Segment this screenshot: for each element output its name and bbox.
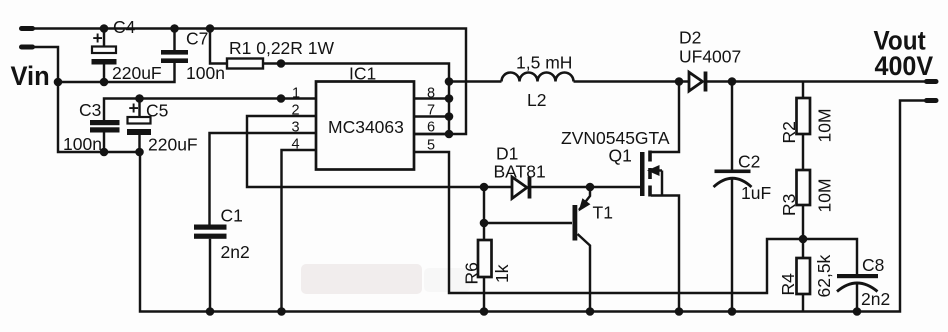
svg-text:MC34063: MC34063 [328,117,404,137]
svg-text:C7: C7 [186,29,208,49]
svg-text:C4: C4 [113,17,136,37]
svg-text:220uF: 220uF [148,135,198,155]
svg-text:UF4007: UF4007 [679,47,741,67]
svg-text:220uF: 220uF [112,63,162,83]
svg-text:8: 8 [427,86,435,102]
svg-text:2: 2 [292,103,300,119]
svg-text:100n: 100n [63,134,102,154]
svg-text:100n: 100n [186,63,225,83]
svg-text:R6: R6 [462,262,482,284]
svg-text:D2: D2 [679,28,701,48]
svg-text:Q1: Q1 [609,146,632,166]
svg-text:10M: 10M [815,178,835,212]
svg-text:C5: C5 [146,101,168,121]
svg-text:L2: L2 [527,90,546,110]
svg-text:R3: R3 [779,194,799,216]
svg-text:C8: C8 [862,255,884,275]
svg-text:C3: C3 [79,100,101,120]
svg-text:2n2: 2n2 [221,242,250,262]
svg-text:3: 3 [292,120,300,136]
svg-text:+: + [93,28,103,48]
svg-text:BAT81: BAT81 [494,162,546,182]
svg-text:D1: D1 [496,144,518,164]
svg-text:400V: 400V [875,50,934,81]
svg-text:1uF: 1uF [741,183,771,203]
svg-text:4: 4 [292,137,300,153]
svg-text:R2: R2 [779,121,799,143]
svg-text:6: 6 [427,120,435,136]
svg-text:+: + [129,98,139,118]
svg-text:10M: 10M [815,108,835,142]
svg-text:R1 0,22R 1W: R1 0,22R 1W [229,38,335,58]
svg-text:R4: R4 [778,273,798,296]
svg-text:C2: C2 [738,152,760,172]
svg-text:T1: T1 [593,203,613,223]
svg-text:7: 7 [427,103,435,119]
svg-text:2n2: 2n2 [861,289,890,309]
svg-text:C1: C1 [221,206,243,226]
svg-text:Vin: Vin [11,60,50,91]
svg-text:1: 1 [292,86,300,102]
svg-text:5: 5 [427,138,435,154]
svg-text:IC1: IC1 [349,64,376,84]
svg-text:62,5k: 62,5k [814,254,834,297]
svg-text:1k: 1k [492,264,512,283]
svg-text:1,5 mH: 1,5 mH [516,53,572,73]
